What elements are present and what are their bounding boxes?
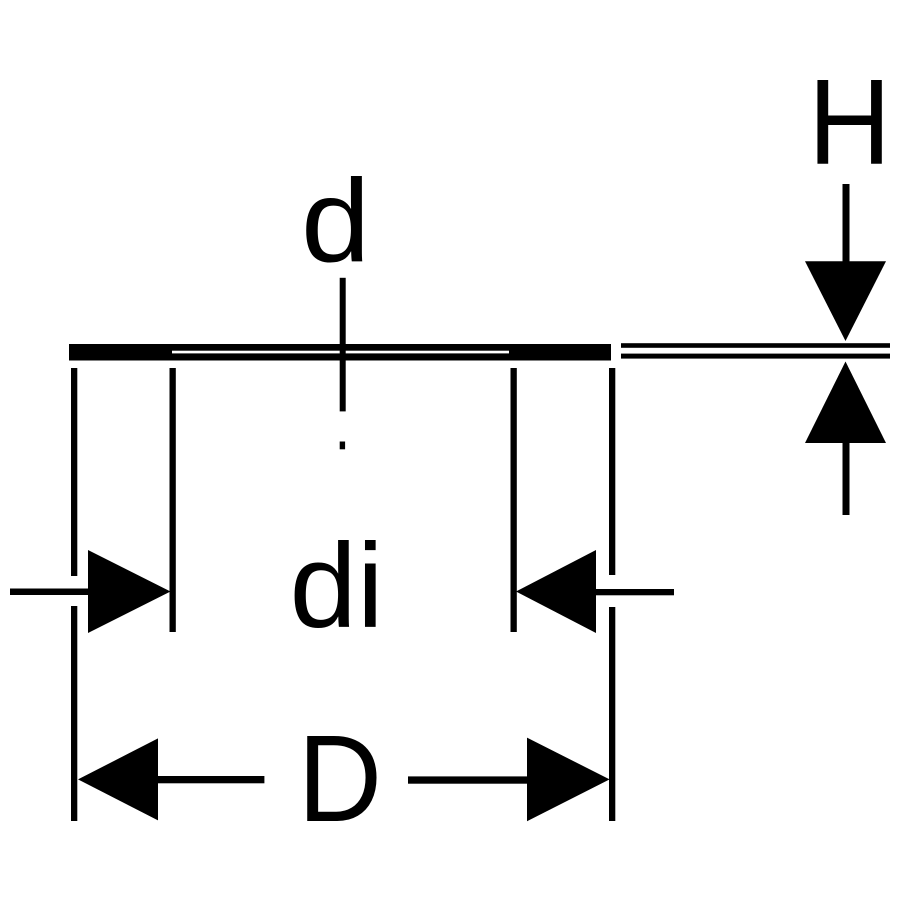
extension line D left upper xyxy=(71,368,77,576)
extension line di right xyxy=(511,368,517,632)
di arrow right xyxy=(516,550,596,633)
svg-text:D: D xyxy=(298,711,383,848)
H dimension lower line xyxy=(843,430,850,515)
H arrow up xyxy=(805,362,886,444)
mating flange bottom line xyxy=(621,354,890,359)
D arrow right xyxy=(527,738,610,822)
extension line D left lower xyxy=(71,606,77,821)
svg-text:d: d xyxy=(301,155,370,287)
di dimension right tail xyxy=(596,589,674,595)
H arrow down xyxy=(805,261,886,341)
H dimension upper line xyxy=(843,184,850,294)
extension line D right lower xyxy=(609,607,615,821)
centerline dot xyxy=(340,442,345,450)
gasket body bar xyxy=(69,344,611,361)
mating flange top line xyxy=(621,343,890,348)
centerline xyxy=(340,278,346,412)
D arrow left xyxy=(78,738,158,820)
svg-text:di: di xyxy=(290,519,384,653)
di dimension left tail xyxy=(10,589,88,596)
D dimension right tail xyxy=(408,776,527,783)
extension line di left xyxy=(170,368,176,632)
extension line D right upper xyxy=(609,368,615,575)
bore white line inside bar xyxy=(172,351,509,354)
di arrow left xyxy=(88,550,171,633)
svg-text:H: H xyxy=(808,54,891,190)
D dimension left tail xyxy=(158,776,264,783)
